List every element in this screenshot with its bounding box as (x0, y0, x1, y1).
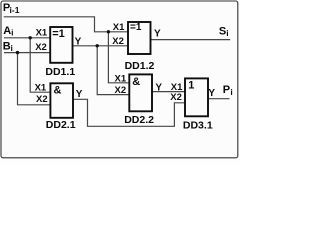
svg-text:Y: Y (75, 36, 82, 47)
svg-text:Y: Y (155, 83, 162, 94)
svg-text:&: & (54, 84, 62, 96)
svg-text:i: i (11, 43, 13, 53)
svg-text:DD3.1: DD3.1 (183, 120, 213, 132)
svg-text:X1: X1 (115, 73, 127, 84)
svg-text:A: A (3, 25, 11, 37)
svg-text:X2: X2 (35, 42, 47, 53)
svg-text:DD2.1: DD2.1 (46, 119, 76, 131)
svg-text:X2: X2 (170, 92, 182, 103)
svg-text:&: & (132, 76, 140, 88)
svg-text:Y: Y (208, 88, 215, 99)
svg-text:DD2.2: DD2.2 (124, 114, 154, 126)
svg-text:i: i (11, 27, 13, 37)
svg-text:S: S (219, 25, 226, 37)
svg-text:B: B (3, 40, 11, 52)
svg-text:1: 1 (188, 80, 194, 92)
svg-text:DD1.2: DD1.2 (125, 60, 155, 72)
svg-text:=1: =1 (52, 28, 65, 40)
svg-text:=1: =1 (130, 22, 142, 33)
svg-text:DD1.1: DD1.1 (45, 66, 75, 78)
svg-text:X1: X1 (36, 28, 48, 39)
svg-text:i: i (230, 87, 232, 97)
svg-text:X1: X1 (35, 83, 47, 94)
svg-text:Y: Y (76, 89, 83, 100)
svg-text:X2: X2 (36, 94, 48, 105)
svg-text:X2: X2 (112, 36, 124, 47)
svg-text:P: P (223, 84, 230, 96)
svg-text:X2: X2 (115, 85, 127, 96)
svg-text:i: i (226, 28, 228, 38)
svg-text:i-1: i-1 (10, 5, 20, 15)
svg-text:X1: X1 (113, 22, 125, 33)
svg-text:Y: Y (154, 29, 161, 40)
